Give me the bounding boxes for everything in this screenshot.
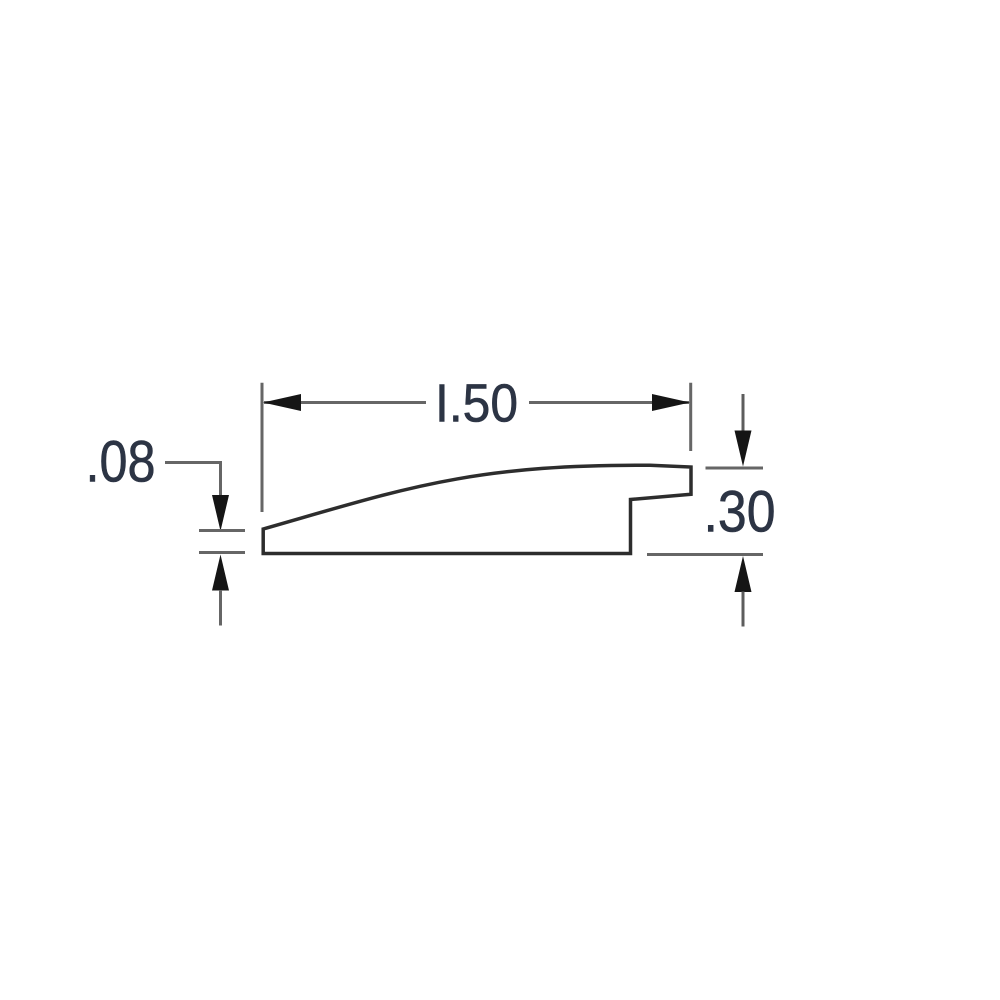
down arrowhead of .08 — [212, 495, 229, 531]
bottom tick of .30 — [647, 553, 763, 556]
molding profile outline — [263, 465, 691, 553]
leader line for .08 — [165, 463, 221, 499]
bottom tick of .08 — [199, 551, 245, 554]
tail line below up arrowhead of .30 — [742, 592, 745, 627]
arrowhead right of 1.50 — [652, 394, 690, 411]
svg-text:.08: .08 — [86, 430, 156, 495]
down arrowhead of .30 — [735, 431, 752, 467]
dimension 1.50 line right segment — [529, 401, 689, 404]
up arrowhead of .08 — [212, 555, 229, 591]
tail line above down arrowhead of .30 — [742, 394, 745, 432]
up arrowhead of .30 — [735, 556, 752, 592]
arrowhead left of 1.50 — [263, 394, 301, 411]
dimension 1.50 line left segment — [264, 401, 426, 404]
tail line below up arrowhead of .08 — [219, 590, 222, 626]
dimension 1.50 right extension line — [689, 383, 692, 451]
top tick of .30 — [706, 467, 764, 470]
top tick of .08 — [199, 529, 245, 532]
svg-text:I.50: I.50 — [435, 375, 518, 434]
dimension 1.50 left extension line — [261, 383, 264, 512]
svg-text:.30: .30 — [704, 480, 776, 545]
